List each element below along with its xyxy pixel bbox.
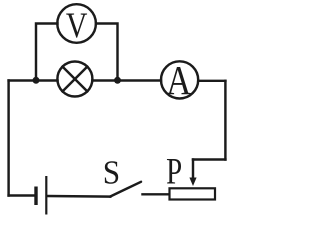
wire: right vertical down [224,81,226,160]
wire: voltmeter branch right (V right, down to node B) [96,24,118,81]
wire: voltmeter branch left (node A up and right to V) [36,24,58,81]
wire: arrow stem onto rheostat [192,160,194,179]
wire: lamp to ammeter [92,79,161,81]
wire: battery to switch [48,195,111,198]
lamp L1: circle with cross [57,62,92,97]
wire: bottom left to battery [9,194,35,196]
svg-text:V: V [66,7,88,46]
rheostat P: resistor box [170,188,216,199]
ammeter U2: circle A [161,61,198,98]
node: left junction dot [33,77,40,84]
voltmeter U: circle V [57,4,96,43]
svg-text:P: P [166,151,182,192]
svg-text:A: A [166,58,191,103]
wire: main left horizontal (left rail to lamp) [9,79,58,81]
wire: elbow to rheostat arrow [193,158,225,160]
svg-text:S: S [103,154,120,191]
battery B1: long thin positive plate [45,176,47,215]
wire: ammeter to top-right corner [198,80,225,82]
switch S: lever blade [110,182,141,197]
wire: switch contact to rheostat box [143,193,170,195]
wire: left vertical rail [7,81,9,196]
rheostat P: slider arrowhead [189,178,196,187]
battery B1: short thick negative plate [34,187,37,206]
node: right junction dot [114,77,121,84]
